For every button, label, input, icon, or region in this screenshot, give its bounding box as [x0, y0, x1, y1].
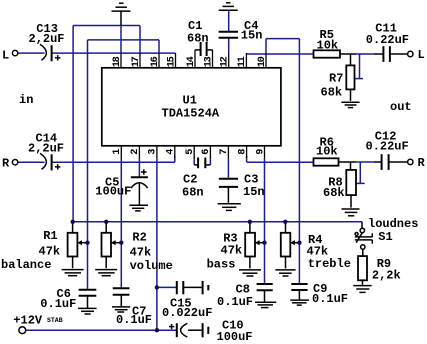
svg-text:R: R	[418, 156, 426, 170]
svg-text:11: 11	[236, 56, 248, 67]
svg-text:68k: 68k	[323, 186, 345, 200]
svg-text:12: 12	[219, 56, 231, 67]
svg-text:10k: 10k	[317, 38, 339, 52]
svg-text:16: 16	[149, 56, 161, 67]
svg-text:0.1uF: 0.1uF	[217, 295, 253, 309]
svg-text:2,2k: 2,2k	[372, 268, 401, 282]
svg-text:treble: treble	[308, 257, 351, 271]
svg-text:L: L	[2, 49, 9, 63]
svg-text:68k: 68k	[321, 85, 343, 99]
svg-text:balance: balance	[1, 258, 51, 272]
svg-text:15n: 15n	[243, 185, 265, 199]
svg-text:17: 17	[130, 56, 142, 67]
svg-text:R7: R7	[329, 71, 343, 85]
svg-text:0.1uF: 0.1uF	[116, 313, 152, 327]
svg-text:10: 10	[256, 56, 268, 67]
svg-text:out: out	[390, 100, 412, 114]
svg-text:14: 14	[185, 56, 197, 67]
svg-text:0.1uF: 0.1uF	[312, 292, 348, 306]
svg-text:18: 18	[111, 56, 123, 67]
svg-text:100uF: 100uF	[217, 330, 253, 344]
svg-text:68n: 68n	[182, 186, 204, 200]
svg-text:13: 13	[202, 56, 214, 67]
svg-text:R1: R1	[43, 229, 57, 243]
svg-text:C2: C2	[183, 173, 197, 187]
svg-text:68n: 68n	[187, 31, 209, 45]
svg-text:bass: bass	[207, 257, 236, 271]
svg-text:100uF: 100uF	[95, 185, 131, 199]
svg-text:STAB: STAB	[47, 317, 63, 324]
svg-text:+12V: +12V	[13, 313, 43, 327]
svg-text:47k: 47k	[130, 246, 152, 260]
svg-text:S1: S1	[378, 230, 392, 244]
svg-text:volume: volume	[130, 259, 173, 273]
svg-text:47k: 47k	[39, 245, 61, 259]
svg-text:2,2uF: 2,2uF	[28, 142, 64, 156]
svg-text:0.22uF: 0.22uF	[366, 139, 409, 153]
svg-text:15: 15	[165, 56, 177, 67]
svg-text:R2: R2	[132, 231, 146, 245]
svg-text:in: in	[19, 93, 33, 107]
svg-text:R: R	[2, 157, 10, 171]
svg-text:0.22uF: 0.22uF	[366, 33, 409, 47]
svg-text:loudnes: loudnes	[368, 217, 418, 231]
svg-text:47k: 47k	[221, 244, 243, 258]
svg-text:TDA1524A: TDA1524A	[162, 106, 220, 120]
svg-text:0.022uF: 0.022uF	[162, 306, 212, 320]
svg-text:15n: 15n	[241, 29, 263, 43]
svg-text:47k: 47k	[307, 244, 329, 258]
svg-text:10k: 10k	[316, 145, 338, 159]
svg-text:0.1uF: 0.1uF	[40, 297, 76, 311]
svg-text:2,2uF: 2,2uF	[29, 32, 65, 46]
svg-text:L: L	[418, 48, 425, 62]
